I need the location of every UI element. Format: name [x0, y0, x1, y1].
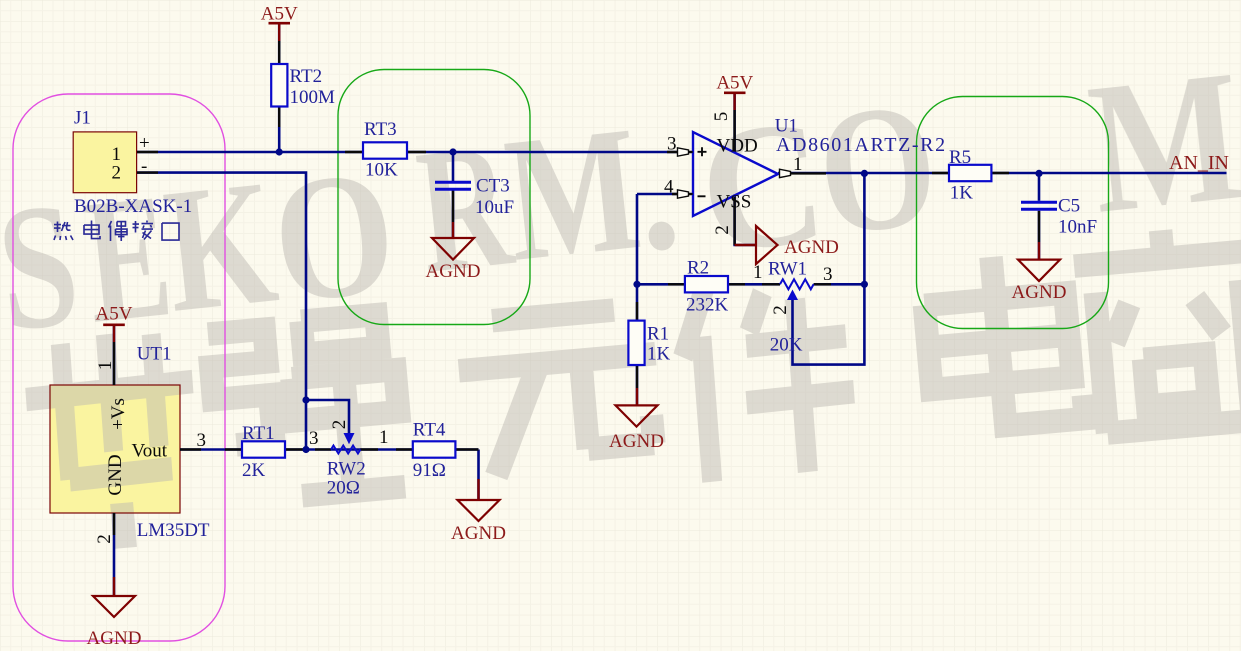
svg-text:A5V: A5V [261, 4, 298, 25]
svg-text:AD8601ARTZ-R2: AD8601ARTZ-R2 [776, 134, 947, 156]
svg-text:AGND: AGND [87, 628, 142, 649]
svg-text:A5V: A5V [96, 304, 133, 325]
svg-text:-: - [141, 156, 147, 177]
svg-text:RT2: RT2 [290, 66, 323, 87]
svg-text:B02B-XASK-1: B02B-XASK-1 [74, 196, 192, 217]
svg-text:3: 3 [823, 264, 833, 285]
svg-text:1: 1 [753, 262, 763, 283]
svg-text:C5: C5 [1058, 196, 1080, 217]
svg-text:2: 2 [770, 305, 791, 315]
svg-text:AGND: AGND [426, 261, 481, 282]
svg-text:20Ω: 20Ω [327, 478, 360, 499]
svg-text:3: 3 [309, 428, 319, 449]
svg-text:RW1: RW1 [768, 259, 807, 280]
svg-text:R5: R5 [949, 147, 971, 168]
svg-text:R1: R1 [647, 324, 669, 345]
svg-text:RW2: RW2 [327, 459, 366, 480]
svg-text:20K: 20K [770, 335, 803, 356]
svg-text:R2: R2 [687, 258, 709, 279]
svg-text:10uF: 10uF [475, 197, 514, 218]
svg-text:Vout: Vout [131, 441, 167, 462]
svg-text:2: 2 [329, 420, 350, 430]
svg-text:J1: J1 [74, 108, 91, 129]
svg-text:+Vs: +Vs [108, 398, 129, 430]
svg-text:2: 2 [712, 225, 733, 235]
svg-text:10nF: 10nF [1058, 217, 1097, 238]
svg-text:2: 2 [112, 163, 122, 184]
svg-text:1K: 1K [950, 183, 974, 204]
svg-text:2K: 2K [242, 460, 266, 481]
svg-text:1: 1 [379, 427, 389, 448]
svg-text:LM35DT: LM35DT [137, 520, 210, 541]
svg-text:VSS: VSS [717, 192, 752, 213]
svg-text:1: 1 [95, 361, 116, 371]
svg-text:AN_IN: AN_IN [1169, 152, 1229, 174]
svg-text:M: M [1081, 30, 1241, 253]
svg-text:M: M [497, 89, 648, 299]
svg-text:AGND: AGND [451, 523, 506, 544]
svg-text:VDD: VDD [717, 136, 758, 157]
svg-text:232K: 232K [686, 295, 729, 316]
svg-text:CT3: CT3 [476, 176, 510, 197]
svg-text:+: + [139, 133, 150, 154]
svg-text:AGND: AGND [1012, 282, 1067, 303]
svg-text:3: 3 [197, 430, 207, 451]
svg-text:100M: 100M [290, 87, 336, 108]
svg-text:2: 2 [94, 534, 115, 544]
svg-text:A5V: A5V [716, 73, 753, 94]
svg-text:AGND: AGND [609, 431, 664, 452]
svg-text:RT3: RT3 [364, 119, 397, 140]
svg-text:91Ω: 91Ω [413, 460, 446, 481]
svg-text:UT1: UT1 [137, 344, 172, 365]
svg-text:4: 4 [664, 177, 674, 198]
svg-text:AGND: AGND [784, 237, 839, 258]
svg-text:RT1: RT1 [242, 423, 275, 444]
svg-text:GND: GND [105, 454, 126, 495]
svg-text:10K: 10K [365, 160, 398, 181]
svg-text:5: 5 [711, 112, 732, 122]
svg-text:3: 3 [667, 134, 677, 155]
svg-text:RT4: RT4 [413, 420, 446, 441]
svg-text:1K: 1K [647, 344, 671, 365]
svg-text:1: 1 [793, 154, 803, 175]
